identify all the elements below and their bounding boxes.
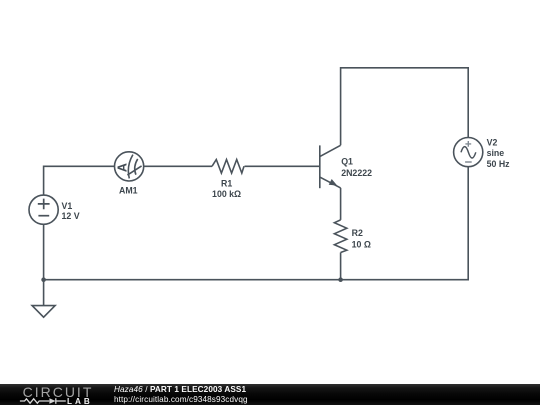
ammeter AM1 [115,152,144,181]
wire V1 top to AM1 left [44,166,115,195]
svg-text:100 kΩ: 100 kΩ [212,189,241,199]
svg-text:R2: R2 [352,228,363,238]
label R2 [352,228,363,238]
svg-text:10 Ω: 10 Ω [352,239,371,249]
svg-text:50 Hz: 50 Hz [487,159,511,169]
ground [32,306,55,318]
label V1 value [62,211,80,221]
svg-text:V2: V2 [487,137,498,147]
footer url text [114,395,248,404]
label V2 value [487,159,511,169]
label V2 [487,137,498,147]
wire V2 bottom + bottom rail [44,167,469,280]
label R1 value [212,189,241,199]
footer bar [0,384,540,405]
transistor Q1 [320,145,341,188]
CircuitLab logo wordmark CIRCUIT [23,384,94,400]
svg-text:A: A [115,163,129,172]
wire R1 to Q1 base [245,165,320,167]
resistor R1 [212,160,244,174]
CircuitLab logo schematic squiggle [19,396,69,405]
wire V1 bottom to bottom rail [43,224,45,279]
label V2 type [487,148,505,158]
svg-text:AM1: AM1 [119,186,138,196]
junction V1/ground/bottom rail [41,277,46,282]
wire to ground [43,280,45,306]
resistor R2 [334,220,346,253]
svg-text:V1: V1 [62,201,73,211]
footer title text [114,385,246,394]
source V2 [454,138,483,167]
source V1 [29,195,58,224]
svg-text:sine: sine [487,148,505,158]
label Q1 value [341,168,372,178]
label R1 [221,178,232,188]
wire Q1 collector to V2 top (top rail) [341,68,469,146]
label V1 [62,201,73,211]
wire Q1 emitter to R2 [340,188,342,220]
label Q1 [341,157,353,167]
wire R2 to bottom rail [340,253,342,280]
junction R2/bottom rail [338,277,343,282]
svg-text:R1: R1 [221,178,232,188]
label R2 value [352,239,371,249]
svg-text:2N2222: 2N2222 [341,168,372,178]
svg-text:Q1: Q1 [341,157,353,167]
label AM1 [119,186,138,196]
wire AM1 to R1 [144,165,212,167]
svg-text:12 V: 12 V [62,211,80,221]
CircuitLab logo wordmark LAB [67,397,93,405]
